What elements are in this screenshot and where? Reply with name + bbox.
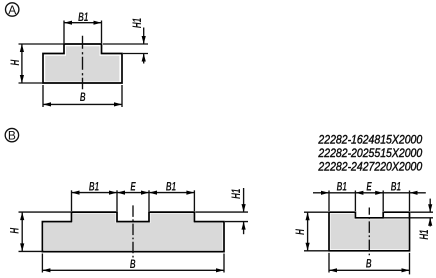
- svg-text:B: B: [80, 92, 86, 105]
- profile A fill: [45, 46, 119, 81]
- svg-text:H: H: [9, 227, 22, 233]
- svg-text:B1: B1: [78, 11, 89, 24]
- profile B fill: [44, 214, 223, 251]
- dimension B (profile C): [329, 253, 410, 275]
- svg-text:22282-2025515X2000: 22282-2025515X2000: [317, 147, 423, 160]
- svg-text:H: H: [295, 229, 308, 235]
- svg-text:B: B: [8, 129, 16, 143]
- dimension B1 right (profile C): [383, 181, 426, 211]
- svg-text:B1: B1: [89, 181, 100, 194]
- svg-text:H: H: [9, 59, 22, 65]
- dimension B (profile B): [42, 254, 224, 273]
- dimension B (profile A): [43, 85, 122, 107]
- dimension H (profile B): [9, 212, 71, 251]
- profile A outline: [43, 44, 122, 83]
- dimension H (profile A): [9, 44, 64, 83]
- dimension B1 left (profile B): [72, 181, 118, 211]
- svg-text:H1: H1: [419, 229, 432, 240]
- svg-text:B: B: [366, 258, 372, 271]
- profile C fill (right variant): [331, 214, 409, 250]
- dimension B1 left (profile C): [313, 181, 355, 211]
- svg-text:22282-2427220X2000: 22282-2427220X2000: [317, 161, 423, 174]
- svg-text:B: B: [130, 259, 136, 272]
- svg-text:B1: B1: [391, 181, 402, 194]
- svg-text:E: E: [366, 181, 372, 194]
- svg-text:H1: H1: [231, 188, 244, 199]
- dimension B1 right (profile B): [149, 181, 194, 211]
- svg-text:H1: H1: [132, 18, 145, 29]
- svg-text:B1: B1: [166, 181, 177, 194]
- profile B center line: [132, 205, 134, 259]
- view label B (circled): [5, 128, 18, 142]
- profile C outline: [329, 212, 410, 251]
- profile B outline: [42, 212, 224, 252]
- dimension E (profile C): [355, 181, 383, 211]
- dimension H (profile C): [295, 212, 329, 251]
- dimension E (profile B): [117, 181, 149, 211]
- dimension H1 (profile A): [103, 18, 148, 64]
- svg-text:B1: B1: [337, 181, 348, 194]
- dimension B1 (profile A): [64, 11, 102, 43]
- profile C center line: [368, 208, 370, 258]
- dimension H1 (profile B): [196, 188, 249, 234]
- dimension H1 (profile C): [383, 199, 433, 240]
- svg-text:E: E: [130, 181, 136, 194]
- view label A (circled): [6, 3, 19, 17]
- profile A center line: [82, 36, 84, 90]
- svg-text:22282-1624815X2000: 22282-1624815X2000: [317, 134, 423, 147]
- svg-text:A: A: [8, 3, 16, 17]
